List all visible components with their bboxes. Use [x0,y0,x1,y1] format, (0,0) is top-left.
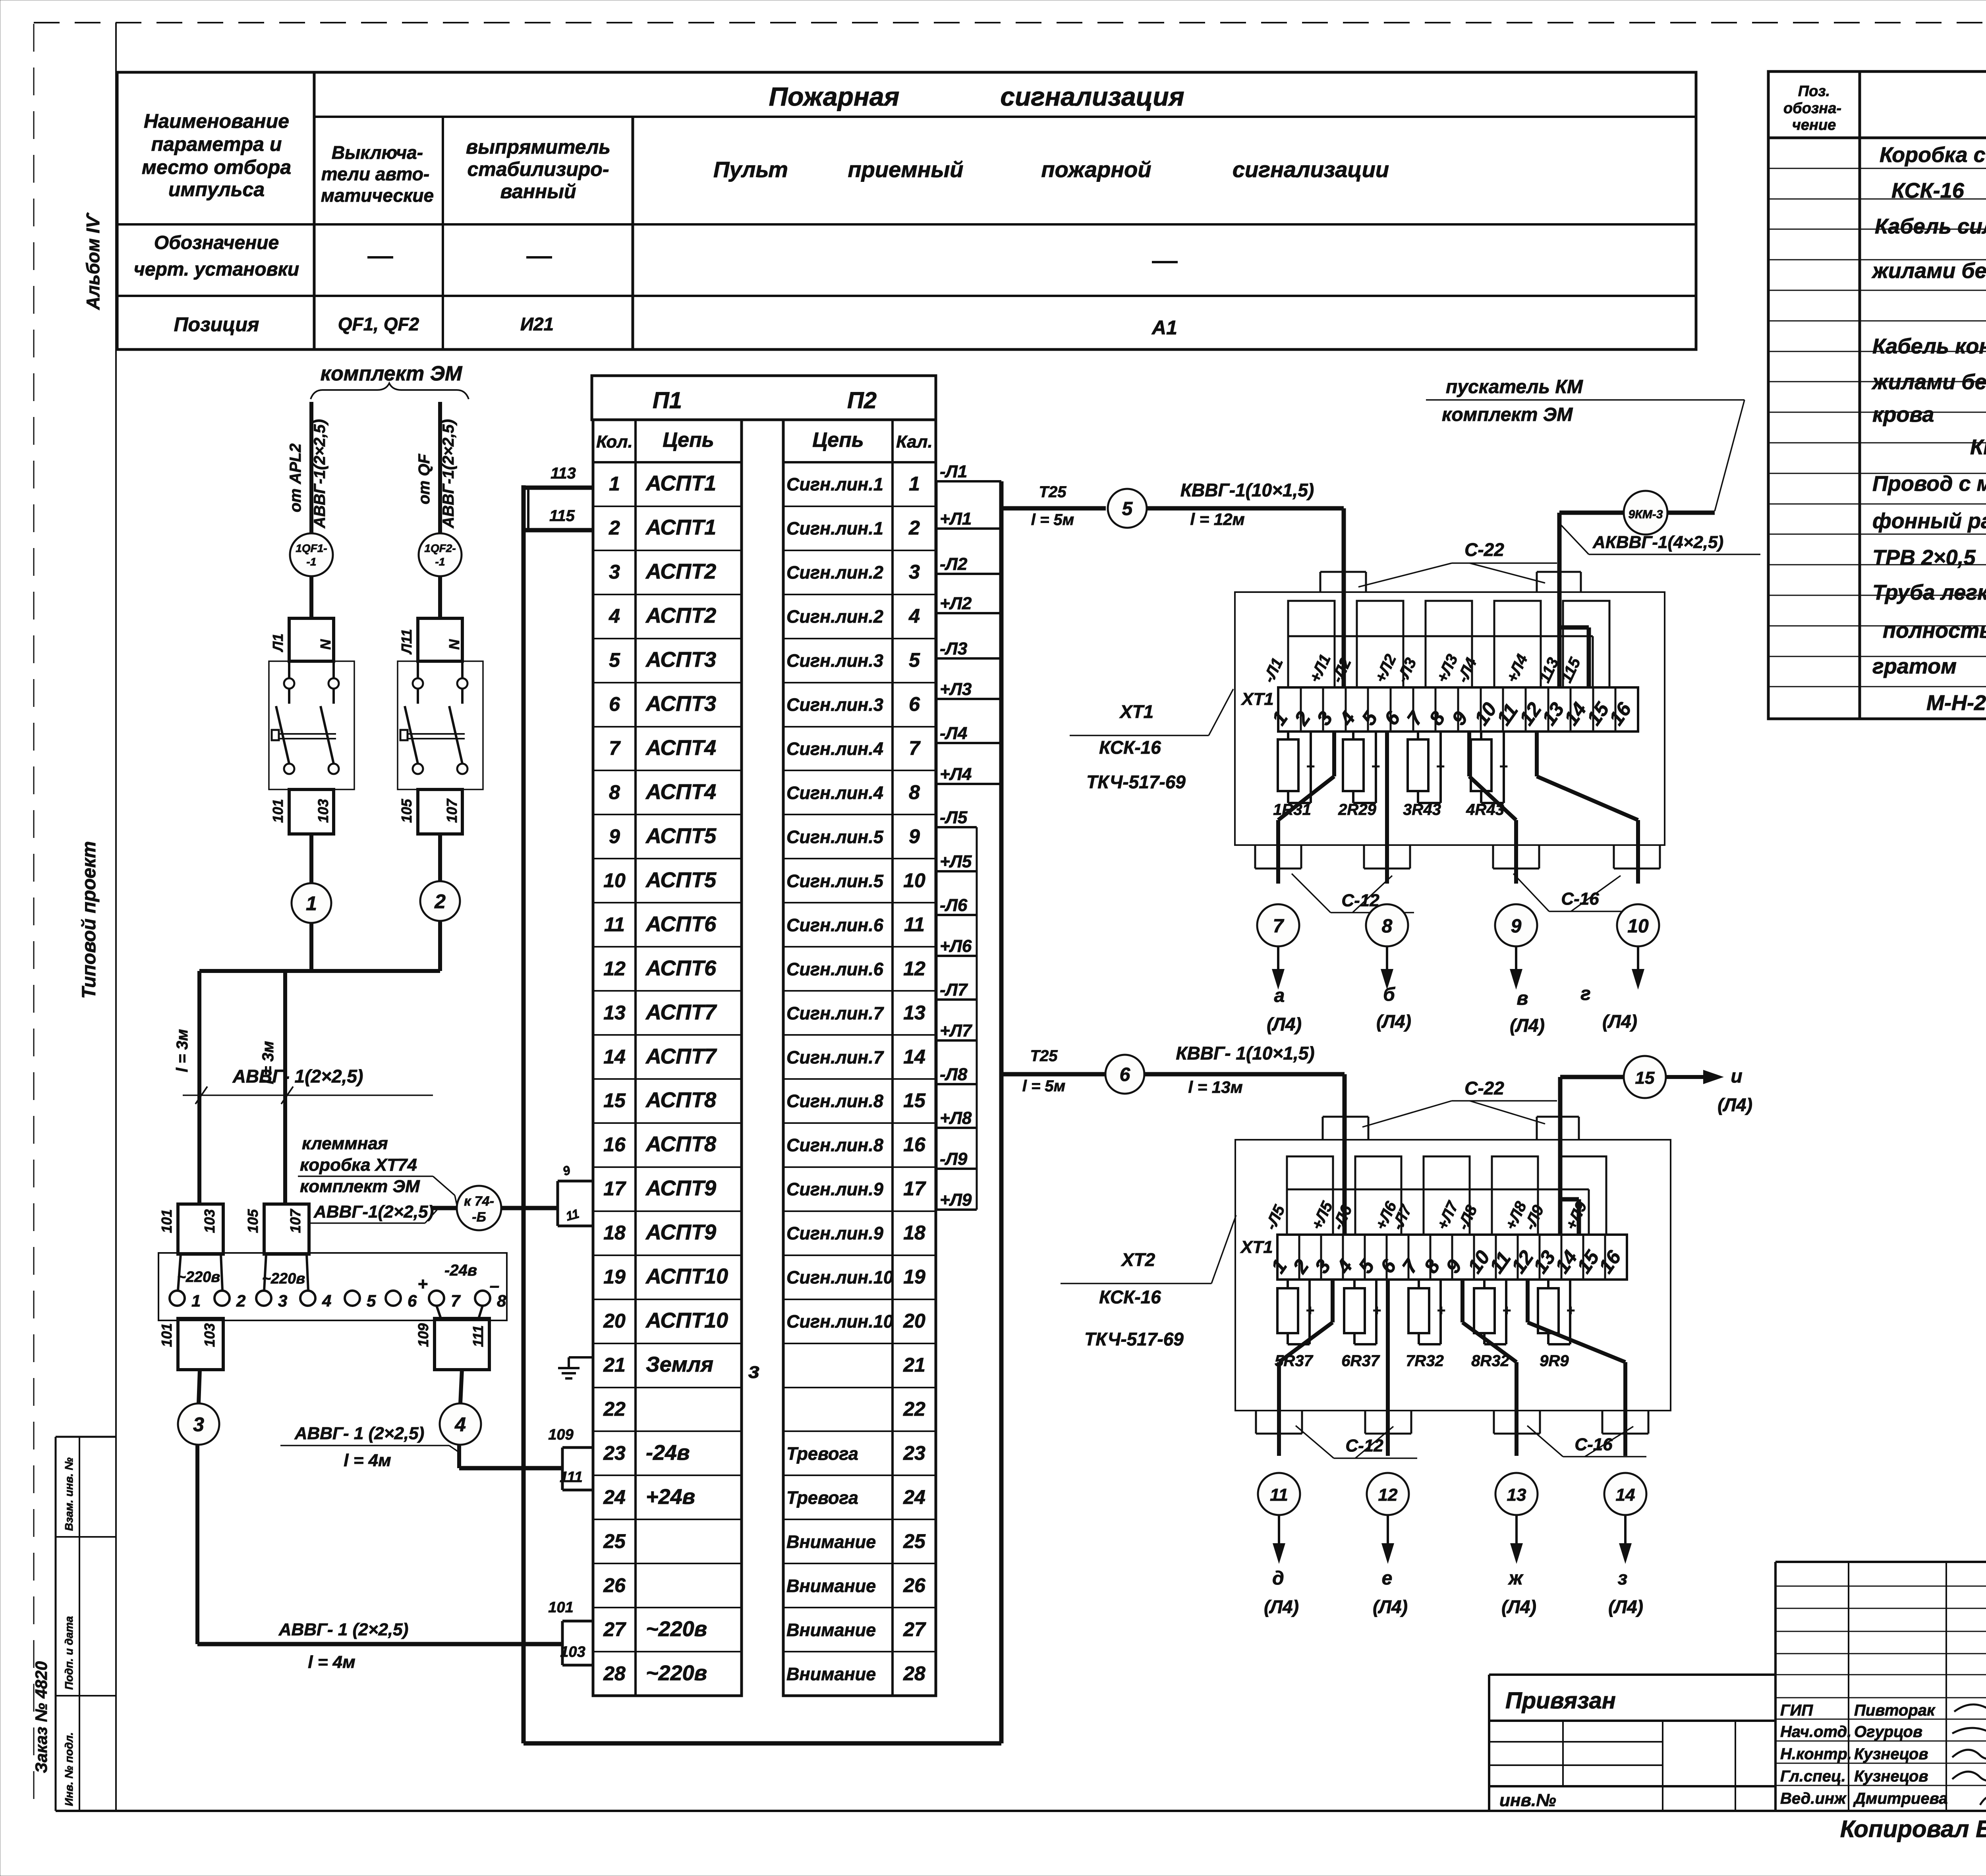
node 13 (cable marker circle) [1495,1473,1538,1515]
resistor 8R32 [1483,1280,1486,1288]
cable box Л1/N [289,618,334,661]
svg-text:3R43: 3R43 [1403,801,1441,818]
parameter table lines [314,116,1696,118]
svg-text:QF1, QF2: QF1, QF2 [338,314,419,334]
svg-text:4: 4 [1335,707,1360,730]
svg-text:~220в: ~220в [646,1661,707,1685]
svg-text:(Л4): (Л4) [1602,1011,1637,1032]
node 15 wire [1560,1075,1625,1079]
svg-text:крова: крова [1872,403,1934,427]
wire T25 to node 5 [1001,506,1106,511]
stub wires 113/115 to П1 rows 1,2 [524,486,592,490]
svg-text:АВВГ-1(2×2,5): АВВГ-1(2×2,5) [313,1202,434,1222]
cable entry bump [1255,1411,1257,1434]
svg-text:–: – [490,1276,499,1295]
svg-text:20: 20 [603,1310,626,1332]
svg-text:4: 4 [322,1291,331,1310]
wire to node 3 [199,1370,200,1403]
svg-text:-Л7: -Л7 [940,980,968,1000]
node 6 [1105,1055,1144,1094]
terminal 8 of box XT74 [475,1291,490,1306]
node 9КМ-3 [1559,511,1624,515]
svg-text:Позиция: Позиция [174,313,259,336]
wire node5 to XT1 [1147,506,1344,511]
svg-text:9: 9 [1447,707,1472,729]
svg-text:Сигн.лин.4: Сигн.лин.4 [786,739,883,759]
svg-text:27: 27 [903,1618,926,1641]
svg-text:клеммная: клеммная [302,1134,388,1153]
svg-text:10: 10 [903,869,925,892]
XT2 internal exit wires [1331,1280,1335,1322]
svg-text:АСПТ7: АСПТ7 [645,1044,717,1068]
svg-text:(Л4): (Л4) [1717,1094,1752,1115]
svg-text:18: 18 [603,1222,626,1244]
svg-text:АСПТ5: АСПТ5 [645,868,717,892]
svg-text:сигнализация: сигнализация [1000,82,1184,111]
svg-text:+Л9: +Л9 [1562,1199,1590,1233]
svg-text:2: 2 [609,517,620,539]
svg-text:сигнализации: сигнализации [1233,157,1389,182]
svg-text:Сигн.лин.6: Сигн.лин.6 [786,959,884,979]
svg-text:1: 1 [609,473,620,495]
svg-text:1: 1 [909,473,920,495]
svg-text:АСПТ4: АСПТ4 [645,780,716,804]
svg-text:+Л6: +Л6 [940,936,972,956]
cable entry bump [1254,845,1256,869]
svg-text:гратом: гратом [1872,654,1957,678]
svg-text:6: 6 [909,693,920,715]
svg-text:9: 9 [609,825,620,847]
svg-text:Внимание: Внимание [786,1576,876,1596]
sheet trim line left [33,24,35,1811]
svg-text:Тревога: Тревога [786,1444,858,1464]
svg-text:l = 5м: l = 5м [1031,511,1074,529]
svg-text:Кол.: Кол. [596,432,633,452]
node 4 [440,1403,481,1445]
svg-text:комплект ЭМ: комплект ЭМ [1442,404,1573,425]
svg-text:Сигн.лин.7: Сигн.лин.7 [786,1047,884,1067]
svg-text:21: 21 [603,1354,626,1376]
terminal 6 of box XT74 [386,1291,401,1306]
box 101/103 at П1 rows 27,28 [562,1620,592,1623]
svg-text:8: 8 [909,781,920,803]
svg-text:8: 8 [609,781,620,803]
cable box Л11/N [418,618,462,661]
svg-text:1: 1 [191,1291,201,1310]
svg-text:l = 3м: l = 3м [174,1029,191,1072]
svg-text:13: 13 [1507,1485,1526,1505]
wire to node 2 [438,834,442,881]
svg-text:7: 7 [451,1291,461,1310]
node 7 (cable marker circle) [1257,904,1299,946]
svg-text:жилами без защитного покров: жилами без защитного покрова [1871,259,1986,283]
svg-text:КВВГ- 1(10×1,5): КВВГ- 1(10×1,5) [1176,1043,1314,1063]
svg-text:П1: П1 [653,388,682,413]
parts table outline [1768,71,1986,719]
cable box 101/103 [289,789,334,834]
svg-text:9: 9 [1441,1255,1466,1277]
parts table row lines [1768,168,1986,169]
svg-text:Труба легкая нвоцинкованная: Труба легкая нвоцинкованная с [1872,581,1986,604]
svg-text:комплект ЭМ: комплект ЭМ [321,362,463,385]
svg-text:Кал.: Кал. [896,432,933,452]
svg-text:26: 26 [903,1574,926,1596]
svg-text:19: 19 [603,1266,626,1288]
svg-text:23: 23 [603,1442,626,1464]
svg-text:9КМ-3: 9КМ-3 [1629,508,1663,521]
svg-text:109: 109 [415,1323,431,1347]
svg-text:АСПТ1: АСПТ1 [645,515,716,539]
resistor 4R43 [1480,731,1482,739]
svg-text:импульса: импульса [168,178,265,201]
svg-text:чение: чение [1792,117,1836,133]
svg-text:25: 25 [603,1530,626,1552]
svg-text:3: 3 [909,561,920,583]
svg-text:~220в: ~220в [646,1617,707,1641]
svg-text:6: 6 [609,693,620,715]
signatures squiggles [1954,1670,1986,1718]
svg-text:7: 7 [1398,1255,1423,1278]
svg-text:АСПТ2: АСПТ2 [645,560,716,583]
node 14 (cable marker circle) [1604,1473,1646,1515]
svg-text:1: 1 [1267,1255,1291,1277]
svg-text:Сигн.лин.4: Сигн.лин.4 [786,783,883,803]
svg-text:113: 113 [551,465,576,482]
svg-text:Кузнецов: Кузнецов [1854,1745,1928,1763]
svg-text:АСПТ9: АСПТ9 [645,1220,716,1244]
svg-text:Дмитриева: Дмитриева [1853,1790,1947,1807]
node 4 wire down [457,1445,461,1468]
svg-text:матические: матические [321,185,434,206]
svg-text:АСПТ6: АСПТ6 [645,956,717,980]
svg-text:КСК-16: КСК-16 [1099,737,1161,758]
svg-text:23: 23 [903,1442,925,1464]
svg-text:15: 15 [903,1089,926,1112]
svg-text:М-Н-25×2,5: М-Н-25×2,5 [1926,691,1986,715]
node 9 (cable marker circle) [1495,904,1537,946]
box 109/111 at П1 rows 23,24 [562,1446,592,1449]
svg-text:103: 103 [201,1209,218,1233]
svg-text:3: 3 [1310,1255,1335,1277]
svg-text:22: 22 [603,1398,626,1420]
svg-text:8: 8 [1382,916,1393,937]
svg-text:Обозначение: Обозначение [154,232,279,253]
resistor 2R29 [1352,731,1354,739]
breaker QF1 designator circle [290,533,333,576]
big enclosure wire: left/bottom/right [522,485,526,1743]
box 9/11 at П1 rows 17,18 [558,1180,592,1183]
cable box 101/103 top [178,1204,223,1254]
П2 sub-table [783,420,936,1696]
svg-text:Внимание: Внимание [786,1532,876,1552]
svg-text:+Л5: +Л5 [940,852,972,871]
svg-text:4: 4 [1332,1255,1357,1278]
svg-text:1: 1 [1267,707,1292,729]
svg-text:28: 28 [903,1662,925,1685]
svg-text:АСПТ10: АСПТ10 [645,1309,728,1332]
svg-text:25: 25 [903,1530,926,1552]
svg-text:П2: П2 [847,388,877,413]
node 12 (cable marker circle) [1367,1473,1409,1515]
svg-text:Взам. инв. №: Взам. инв. № [63,1457,75,1531]
cable box 105/107 top [264,1204,309,1254]
svg-text:Провод с медными жилами теле-: Провод с медными жилами теле- [1872,472,1986,496]
svg-text:коробка ХТ74: коробка ХТ74 [300,1155,417,1175]
svg-text:ХТ1: ХТ1 [1240,1237,1273,1257]
svg-text:АСПТ7: АСПТ7 [645,1000,717,1024]
svg-text:10: 10 [603,869,626,892]
svg-text:103: 103 [315,799,331,823]
resistor 3R43 [1417,731,1419,739]
svg-text:АВВГ- 1 (2×2,5): АВВГ- 1 (2×2,5) [294,1424,425,1443]
svg-text:Сигн.лин.5: Сигн.лин.5 [786,827,884,847]
svg-text:+Л1: +Л1 [940,509,972,529]
svg-text:6: 6 [1380,707,1405,729]
resistor 6R37 [1353,1280,1356,1288]
svg-text:19: 19 [903,1266,925,1288]
resistor 7R32 [1418,1280,1420,1288]
svg-text:105: 105 [398,799,415,823]
svg-text:С-16: С-16 [1561,889,1599,909]
svg-text:2: 2 [236,1291,245,1310]
svg-text:105: 105 [245,1209,261,1233]
svg-text:Заказ № 4820: Заказ № 4820 [32,1661,50,1773]
svg-text:3: 3 [1312,707,1337,729]
svg-text:Подп. и дата: Подп. и дата [63,1616,75,1690]
svg-text:-1: -1 [307,556,317,568]
svg-text:107: 107 [287,1208,303,1233]
svg-text:Внимание: Внимание [786,1620,876,1640]
arrow to и (Л4) [1666,1075,1705,1079]
svg-text:а: а [1274,985,1285,1006]
cable entry bump [1364,1411,1366,1434]
svg-text:черт. установки: черт. установки [134,259,299,280]
node 1 [292,883,331,923]
resistor 5R37 [1287,1280,1289,1288]
svg-text:6R37: 6R37 [1341,1352,1380,1370]
svg-text:6: 6 [408,1291,417,1310]
svg-text:Сигн.лин.5: Сигн.лин.5 [786,871,884,891]
svg-text:АВВГ-1(2×2,5): АВВГ-1(2×2,5) [440,419,457,529]
svg-text:фонный распределительный: фонный распределительный [1872,509,1986,533]
wire to node 1 [309,834,313,883]
branch 1 wire from APL2 [309,402,313,534]
svg-text:4: 4 [908,605,920,627]
svg-text:9: 9 [1511,916,1522,937]
svg-text:тели авто-: тели авто- [321,164,429,184]
svg-text:5: 5 [1122,498,1133,519]
resistor 1R31 [1287,731,1289,739]
svg-text:Гл.спец.: Гл.спец. [1780,1768,1846,1785]
svg-text:Сигн.лин.8: Сигн.лин.8 [786,1091,883,1111]
svg-text:АСПТ10: АСПТ10 [645,1264,728,1288]
svg-text:N: N [446,639,462,650]
svg-text:8: 8 [1425,707,1449,729]
svg-text:16: 16 [1594,1246,1625,1278]
svg-text:С-12: С-12 [1341,891,1379,910]
svg-text:з: з [1618,1568,1628,1589]
cable entry bump [1492,845,1494,869]
cable entry bump [1493,1411,1495,1434]
svg-text:инв.№: инв.№ [1499,1791,1556,1810]
svg-text:ванный: ванный [500,180,576,203]
cable entry bump [1363,845,1365,869]
svg-text:l = 12м: l = 12м [1190,510,1244,529]
svg-text:Сигн.лин.1: Сигн.лин.1 [786,518,883,538]
П1/П2 header box [592,376,936,420]
svg-text:3: 3 [609,561,620,583]
svg-text:10: 10 [1627,916,1649,937]
node 3 wire down [195,1445,199,1644]
svg-text:2R29: 2R29 [1338,801,1376,818]
svg-text:пожарной: пожарной [1041,157,1151,182]
svg-text:Сигн.лин.2: Сигн.лин.2 [786,606,883,627]
svg-text:109: 109 [548,1426,573,1443]
terminal 5 of box XT74 [345,1291,360,1306]
svg-text:Цепь: Цепь [663,428,714,452]
frame bottom border [56,1810,1986,1812]
svg-text:Сигн.лин.1: Сигн.лин.1 [786,474,883,494]
svg-text:20: 20 [903,1310,925,1332]
svg-text:Поз.: Поз. [1798,83,1830,100]
terminal 1 of box XT74 [170,1291,185,1306]
svg-text:-Л1: -Л1 [1260,655,1287,685]
svg-text:АСПТ6: АСПТ6 [645,912,717,936]
svg-text:Сигн.лин.2: Сигн.лин.2 [786,562,883,583]
svg-text:АСПТ9: АСПТ9 [645,1176,716,1200]
svg-text:-Л5: -Л5 [940,808,968,827]
connector XT2 terminal strip pins 1-16 [1277,1235,1627,1280]
svg-text:7: 7 [609,737,621,759]
svg-text:от QF: от QF [415,454,433,504]
svg-text:ХТ2: ХТ2 [1121,1249,1155,1270]
node 15 [1624,1056,1666,1098]
svg-text:АСПТ3: АСПТ3 [645,648,716,672]
svg-text:Альбом ІѴ: Альбом ІѴ [83,212,103,310]
svg-text:-Л5: -Л5 [1262,1202,1289,1232]
cable box 101/103 bottom [178,1318,223,1370]
svg-text:в: в [1517,988,1528,1009]
П1 sub-table [593,420,742,1696]
svg-text:Н.контр.: Н.контр. [1780,1745,1852,1763]
svg-text:Сигн.лин.10: Сигн.лин.10 [786,1311,893,1332]
svg-text:С-22: С-22 [1464,1078,1504,1098]
svg-text:-24в: -24в [646,1441,690,1465]
svg-text:Сигн.лин.7: Сигн.лин.7 [786,1003,884,1023]
ground symbol at row 21 [569,1356,592,1359]
cable box 109/111 bottom [435,1318,489,1370]
svg-text:АСПТ5: АСПТ5 [645,824,717,848]
terminal 2 of box XT74 [214,1291,230,1306]
node 2 [420,881,460,921]
wire node1 down-left [309,923,313,971]
svg-text:Сигн.лин.9: Сигн.лин.9 [786,1179,883,1199]
svg-text:+Л1: +Л1 [1306,652,1334,685]
svg-text:Типовой проект: Типовой проект [79,841,100,999]
svg-text:АСПТ2: АСПТ2 [645,604,716,627]
svg-text:АСПТ3: АСПТ3 [645,692,716,716]
svg-text:16: 16 [603,1133,626,1156]
svg-text:Коробка соединительная: Коробка соединительная [1880,143,1986,167]
svg-text:б: б [1383,984,1395,1005]
svg-text:С-22: С-22 [1464,539,1504,560]
svg-text:-Л9: -Л9 [940,1149,968,1169]
svg-text:Сигн.лин.6: Сигн.лин.6 [786,915,884,935]
svg-text:101: 101 [270,799,286,823]
svg-text:-24в: -24в [444,1262,477,1279]
svg-text:16: 16 [903,1133,926,1156]
svg-text:18: 18 [903,1222,925,1244]
svg-text:8: 8 [1420,1255,1444,1277]
svg-text:+Л4: +Л4 [940,764,972,784]
svg-text:Выключа-: Выключа- [332,142,423,163]
svg-text:(Л4): (Л4) [1373,1596,1408,1617]
parameter table outline [117,72,1696,349]
svg-text:101: 101 [548,1599,573,1616]
svg-text:Сигн.лин.3: Сигн.лин.3 [786,650,883,671]
svg-text:13: 13 [903,1002,925,1024]
svg-text:+Л3: +Л3 [940,679,972,699]
node 8 (cable marker circle) [1366,904,1408,946]
svg-text:ХТ1: ХТ1 [1240,689,1274,709]
branch 2 wire from QF [438,402,442,534]
cable entry bump [1613,845,1615,869]
breaker QF2 designator circle [419,533,462,576]
svg-text:ТКЧ-517-69: ТКЧ-517-69 [1084,1329,1184,1349]
connector XT1 terminal strip pins 1-16 [1278,687,1638,731]
svg-text:4: 4 [609,605,620,627]
svg-text:АВВГ- 1 (2×2,5): АВВГ- 1 (2×2,5) [278,1620,409,1639]
bottom-left service table [55,1437,57,1811]
svg-text:103: 103 [560,1644,585,1660]
svg-text:стабилизиро-: стабилизиро- [467,158,609,180]
svg-text:ХТ1: ХТ1 [1119,701,1153,722]
svg-text:Копировал Волкова: Копировал Волкова [1840,1816,1986,1842]
wire from К74-Б to box 9/11 [501,1206,558,1210]
svg-text:5: 5 [1354,1255,1379,1277]
svg-text:14: 14 [603,1046,626,1068]
svg-text:111: 111 [470,1325,486,1347]
svg-text:l = 13м: l = 13м [1188,1078,1242,1096]
svg-text:АВВГ- 1(2×2,5): АВВГ- 1(2×2,5) [232,1066,363,1087]
svg-text:(Л4): (Л4) [1608,1596,1643,1617]
svg-text:АСПТ4: АСПТ4 [645,736,716,760]
svg-text:11: 11 [564,1206,580,1224]
svg-text:12: 12 [903,957,925,980]
svg-text:-1: -1 [435,556,445,568]
wire node6 to XT2 [1144,1072,1345,1077]
breaker QF1 contacts and blades [284,678,294,689]
svg-text:1: 1 [306,892,317,915]
svg-text:9: 9 [909,825,920,847]
svg-text:д: д [1272,1568,1284,1589]
svg-text:Инв. № подл.: Инв. № подл. [63,1732,75,1806]
svg-text:2: 2 [1290,707,1315,730]
wire 9КМ-3 down to XT1 [1557,513,1562,687]
svg-text:l = 4м: l = 4м [344,1451,391,1470]
svg-text:комплект ЭМ: комплект ЭМ [300,1177,420,1196]
svg-text:7R32: 7R32 [1406,1352,1444,1370]
svg-text:Кузнецов: Кузнецов [1854,1768,1928,1785]
svg-text:+Л7: +Л7 [940,1021,973,1040]
svg-text:1QF1-: 1QF1- [296,542,327,554]
svg-text:3: 3 [278,1291,287,1310]
svg-text:от АРL2: от АРL2 [287,444,304,512]
привязан box [1488,1675,1490,1811]
svg-text:ТРВ 2×0,5: ТРВ 2×0,5 [1872,546,1976,569]
svg-text:ж: ж [1507,1568,1524,1589]
svg-text:(Л4): (Л4) [1376,1011,1411,1032]
